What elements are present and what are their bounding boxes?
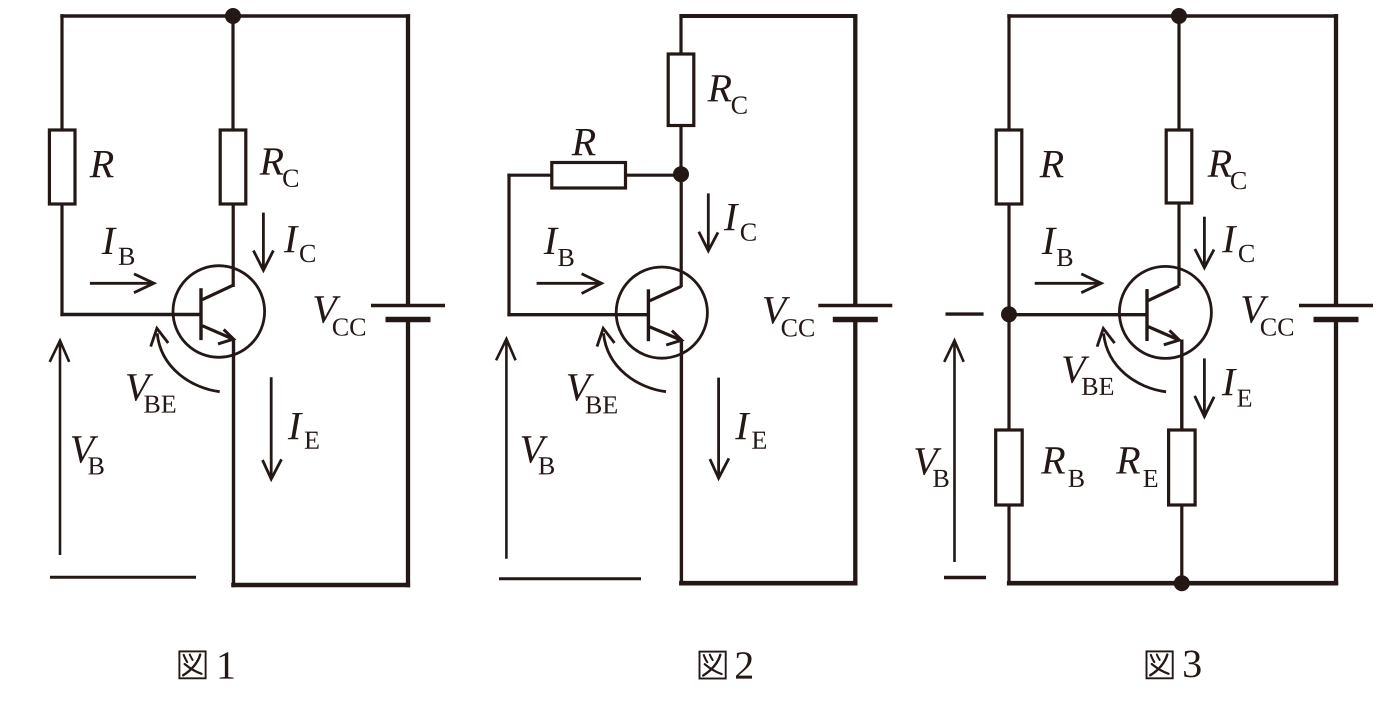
wire: fig1 left branch upper <box>60 14 63 131</box>
voltage tick lower (fig3) <box>944 576 986 579</box>
transistor Q3 (fig3) collector stroke <box>1148 286 1179 301</box>
resistor R (fig3) <box>996 130 1022 204</box>
transistor Q2 (fig2) collector stroke <box>650 286 682 301</box>
wire: fig1 bottom rail <box>231 583 410 588</box>
transistor Q2 (fig2) emitter stroke <box>650 327 682 341</box>
voltage tick upper (fig3) <box>946 312 984 315</box>
V_BE polarity arc (fig2) <box>604 333 667 391</box>
wire: fig3 emitter to bottom rail <box>1180 504 1183 585</box>
battery V_CC short plate (fig3) <box>1314 317 1359 323</box>
wire: fig2 right rail lower <box>853 320 857 586</box>
wire: fig2 top rail <box>679 14 857 18</box>
wire: fig1 collector wire <box>232 203 235 287</box>
label I_E (fig1) <box>288 413 303 439</box>
label I_B (fig1) <box>102 228 117 254</box>
wire: fig2 collector branch top <box>679 14 682 55</box>
wire: fig2 left branch vertical <box>507 174 510 317</box>
wire: fig1 emitter wire <box>232 339 235 588</box>
I_C arrowhead (fig2) <box>699 232 718 251</box>
I_E arrow shaft (fig2) <box>717 378 720 475</box>
label I_E (fig3) <box>1222 369 1237 395</box>
V_BE polarity arc (fig1) <box>157 333 220 391</box>
I_C arrowhead (fig1) <box>253 251 273 271</box>
figure caption ZU2 kanji box <box>700 652 726 679</box>
wire: fig3 left branch upper <box>1007 14 1010 131</box>
label I_C (fig1) <box>284 226 299 252</box>
I_C arrow shaft (fig3) <box>1203 217 1206 265</box>
ground reference line (fig1) <box>50 576 196 579</box>
figure caption ZU1 kanji box <box>179 651 205 678</box>
V_B arrow shaft (fig2) <box>505 342 508 558</box>
transistor Q2 (fig2) body circle <box>616 267 707 358</box>
I_C arrowhead (fig3) <box>1195 249 1214 268</box>
I_B arrow shaft (fig2) <box>537 282 599 285</box>
V_B arrow shaft (fig3) <box>953 344 956 562</box>
I_E arrowhead (fig1) <box>263 459 282 479</box>
resistor R_C (fig3) <box>1166 130 1192 203</box>
I_E arrow shaft (fig3) <box>1203 358 1206 413</box>
label R (fig2) <box>571 129 595 155</box>
figure caption ZU1 kanji tick 1 <box>184 655 188 662</box>
battery V_CC short plate (fig1) <box>386 317 431 323</box>
node: fig3 bottom junction dot <box>1174 575 1190 591</box>
I_B arrowhead (fig3) <box>1081 274 1101 293</box>
transistor Q1 (fig1) base bar <box>199 288 202 340</box>
figure caption ZU2 number <box>736 652 752 678</box>
I_B arrowhead (fig2) <box>582 274 602 294</box>
transistor Q2 (fig2) base bar <box>647 289 650 341</box>
label V_BE (fig3) <box>1063 356 1089 383</box>
wire: fig3 left branch to R_B <box>1007 314 1010 431</box>
transistor Q3 (fig3) emitter stroke <box>1148 327 1179 341</box>
figure caption ZU1 number <box>219 652 233 678</box>
wire: fig3 base wire <box>1009 313 1147 316</box>
wire: fig2 R to left corner <box>507 174 552 177</box>
node: fig1 top junction dot <box>225 8 241 24</box>
figure caption ZU3 kanji tick 1 <box>1151 655 1155 662</box>
figure caption ZU1 kanji tick 2 <box>190 655 193 660</box>
I_C arrow shaft (fig2) <box>707 193 710 247</box>
node: fig2 feedback junction dot <box>673 166 689 182</box>
label R_C (fig2) <box>707 75 731 101</box>
label I_C (fig2) <box>724 204 739 230</box>
I_B arrow shaft (fig3) <box>1035 282 1099 285</box>
V_BE arc arrowhead (fig2) <box>597 328 615 346</box>
wire: fig1 base wire <box>60 313 201 316</box>
figure caption ZU1 kanji cross stroke <box>185 664 202 674</box>
label V_BE (fig2) <box>568 374 594 401</box>
wire: fig2 collector wire <box>680 174 683 287</box>
figure caption ZU2 kanji cross stroke <box>705 664 722 674</box>
label R (fig1) <box>90 151 114 177</box>
wire: fig2 emitter wire <box>680 340 683 585</box>
label I_B (fig3) <box>1042 228 1057 254</box>
label I_C (fig3) <box>1222 226 1237 252</box>
resistor R_E (fig3) <box>1169 430 1196 505</box>
transistor Q3 (fig3) emitter arrowhead <box>1164 330 1180 344</box>
transistor Q2 (fig2) emitter arrowhead <box>666 331 682 345</box>
figure caption ZU3 kanji cross stroke <box>1152 664 1169 674</box>
resistor R (fig2, horizontal) <box>552 163 626 189</box>
wire: fig2 base wire <box>507 313 648 316</box>
label V_CC (fig1) <box>314 296 340 323</box>
wire: fig3 top rail <box>1007 14 1338 17</box>
V_B arrowhead (fig1) <box>50 341 69 362</box>
figure caption ZU3 kanji box <box>1147 651 1173 678</box>
wire: fig3 R_B to bottom rail <box>1007 504 1010 585</box>
transistor Q1 (fig1) emitter arrowhead <box>218 330 234 344</box>
figure caption ZU3 number <box>1184 651 1201 678</box>
label R (fig3) <box>1039 151 1063 177</box>
resistor R_B (fig3) <box>996 430 1023 505</box>
V_B arrowhead (fig3) <box>944 341 964 362</box>
figure caption ZU3 kanji long stroke <box>1150 655 1167 676</box>
wire: fig3 emitter wire upper <box>1180 340 1183 432</box>
V_B arrow shaft (fig1) <box>59 344 62 555</box>
label V_B (fig2) <box>522 436 548 463</box>
resistor R (fig1) <box>49 130 75 204</box>
label V_CC (fig3) <box>1242 296 1268 323</box>
figure caption ZU1 kanji long stroke <box>183 655 200 676</box>
ground reference line (fig2) <box>499 577 641 580</box>
wire: fig2 collector branch mid <box>679 125 682 176</box>
wire: fig1 collector branch upper <box>231 14 234 131</box>
figure caption ZU2 kanji tick 1 <box>704 655 708 662</box>
label V_CC (fig2) <box>764 297 790 324</box>
label R_C (fig1) <box>259 148 283 174</box>
label R_B (fig3) <box>1041 447 1065 473</box>
label V_B (fig1) <box>72 436 98 463</box>
battery V_CC short plate (fig2) <box>833 317 878 323</box>
label R_E (fig3) <box>1116 447 1140 473</box>
wire: fig1 left branch lower <box>60 203 63 316</box>
label I_B (fig2) <box>544 228 559 254</box>
wire: fig1 right rail lower <box>406 320 410 588</box>
wire: fig1 right rail upper <box>406 14 410 305</box>
wire: fig2 right rail upper <box>853 14 857 306</box>
wire: fig3 bottom rail <box>1007 581 1338 586</box>
wire: fig3 collector branch upper <box>1177 14 1180 131</box>
transistor Q3 (fig3) body circle <box>1119 266 1211 358</box>
wire: fig3 left branch mid <box>1007 203 1010 316</box>
wire: fig1 top rail <box>60 14 410 17</box>
wire: fig2 bottom rail <box>679 581 857 586</box>
I_E arrow shaft (fig1) <box>270 377 273 476</box>
wire: fig3 collector wire <box>1177 202 1180 286</box>
transistor Q1 (fig1) collector stroke <box>202 285 233 300</box>
V_B arrowhead (fig2) <box>496 339 515 360</box>
label V_B (fig3) <box>915 448 941 475</box>
I_B arrowhead (fig1) <box>134 274 154 293</box>
battery V_CC long plate (fig3) <box>1299 304 1373 307</box>
resistor R_C (fig2) <box>668 54 694 126</box>
figure caption ZU2 kanji tick 2 <box>710 655 713 660</box>
I_E arrowhead (fig3) <box>1195 396 1214 417</box>
transistor Q3 (fig3) base bar <box>1145 289 1148 341</box>
wire: fig2 feedback link (dot to R) <box>626 174 681 177</box>
I_E arrowhead (fig2) <box>710 458 729 478</box>
label R_C (fig3) <box>1207 151 1231 177</box>
V_BE arc arrowhead (fig3) <box>1097 328 1115 346</box>
battery V_CC long plate (fig1) <box>371 304 445 307</box>
resistor R_C (fig1) <box>220 130 246 204</box>
V_BE arc arrowhead (fig1) <box>151 328 169 346</box>
node: fig3 base junction dot <box>1001 306 1017 322</box>
label I_E (fig2) <box>735 413 750 439</box>
wire: fig3 right rail upper <box>1334 14 1338 306</box>
transistor Q1 (fig1) emitter stroke <box>202 326 233 340</box>
wire: fig3 right rail lower <box>1334 320 1338 586</box>
battery V_CC long plate (fig2) <box>818 304 892 307</box>
transistor Q1 (fig1) body circle <box>173 266 265 358</box>
node: fig3 top junction dot <box>1171 8 1187 24</box>
figure caption ZU2 kanji long stroke <box>703 655 720 676</box>
I_C arrow shaft (fig1) <box>262 213 265 267</box>
figure caption ZU3 kanji tick 2 <box>1157 655 1160 660</box>
label V_BE (fig1) <box>127 374 153 401</box>
I_B arrow shaft (fig1) <box>90 282 151 285</box>
V_BE polarity arc (fig3) <box>1104 333 1167 391</box>
